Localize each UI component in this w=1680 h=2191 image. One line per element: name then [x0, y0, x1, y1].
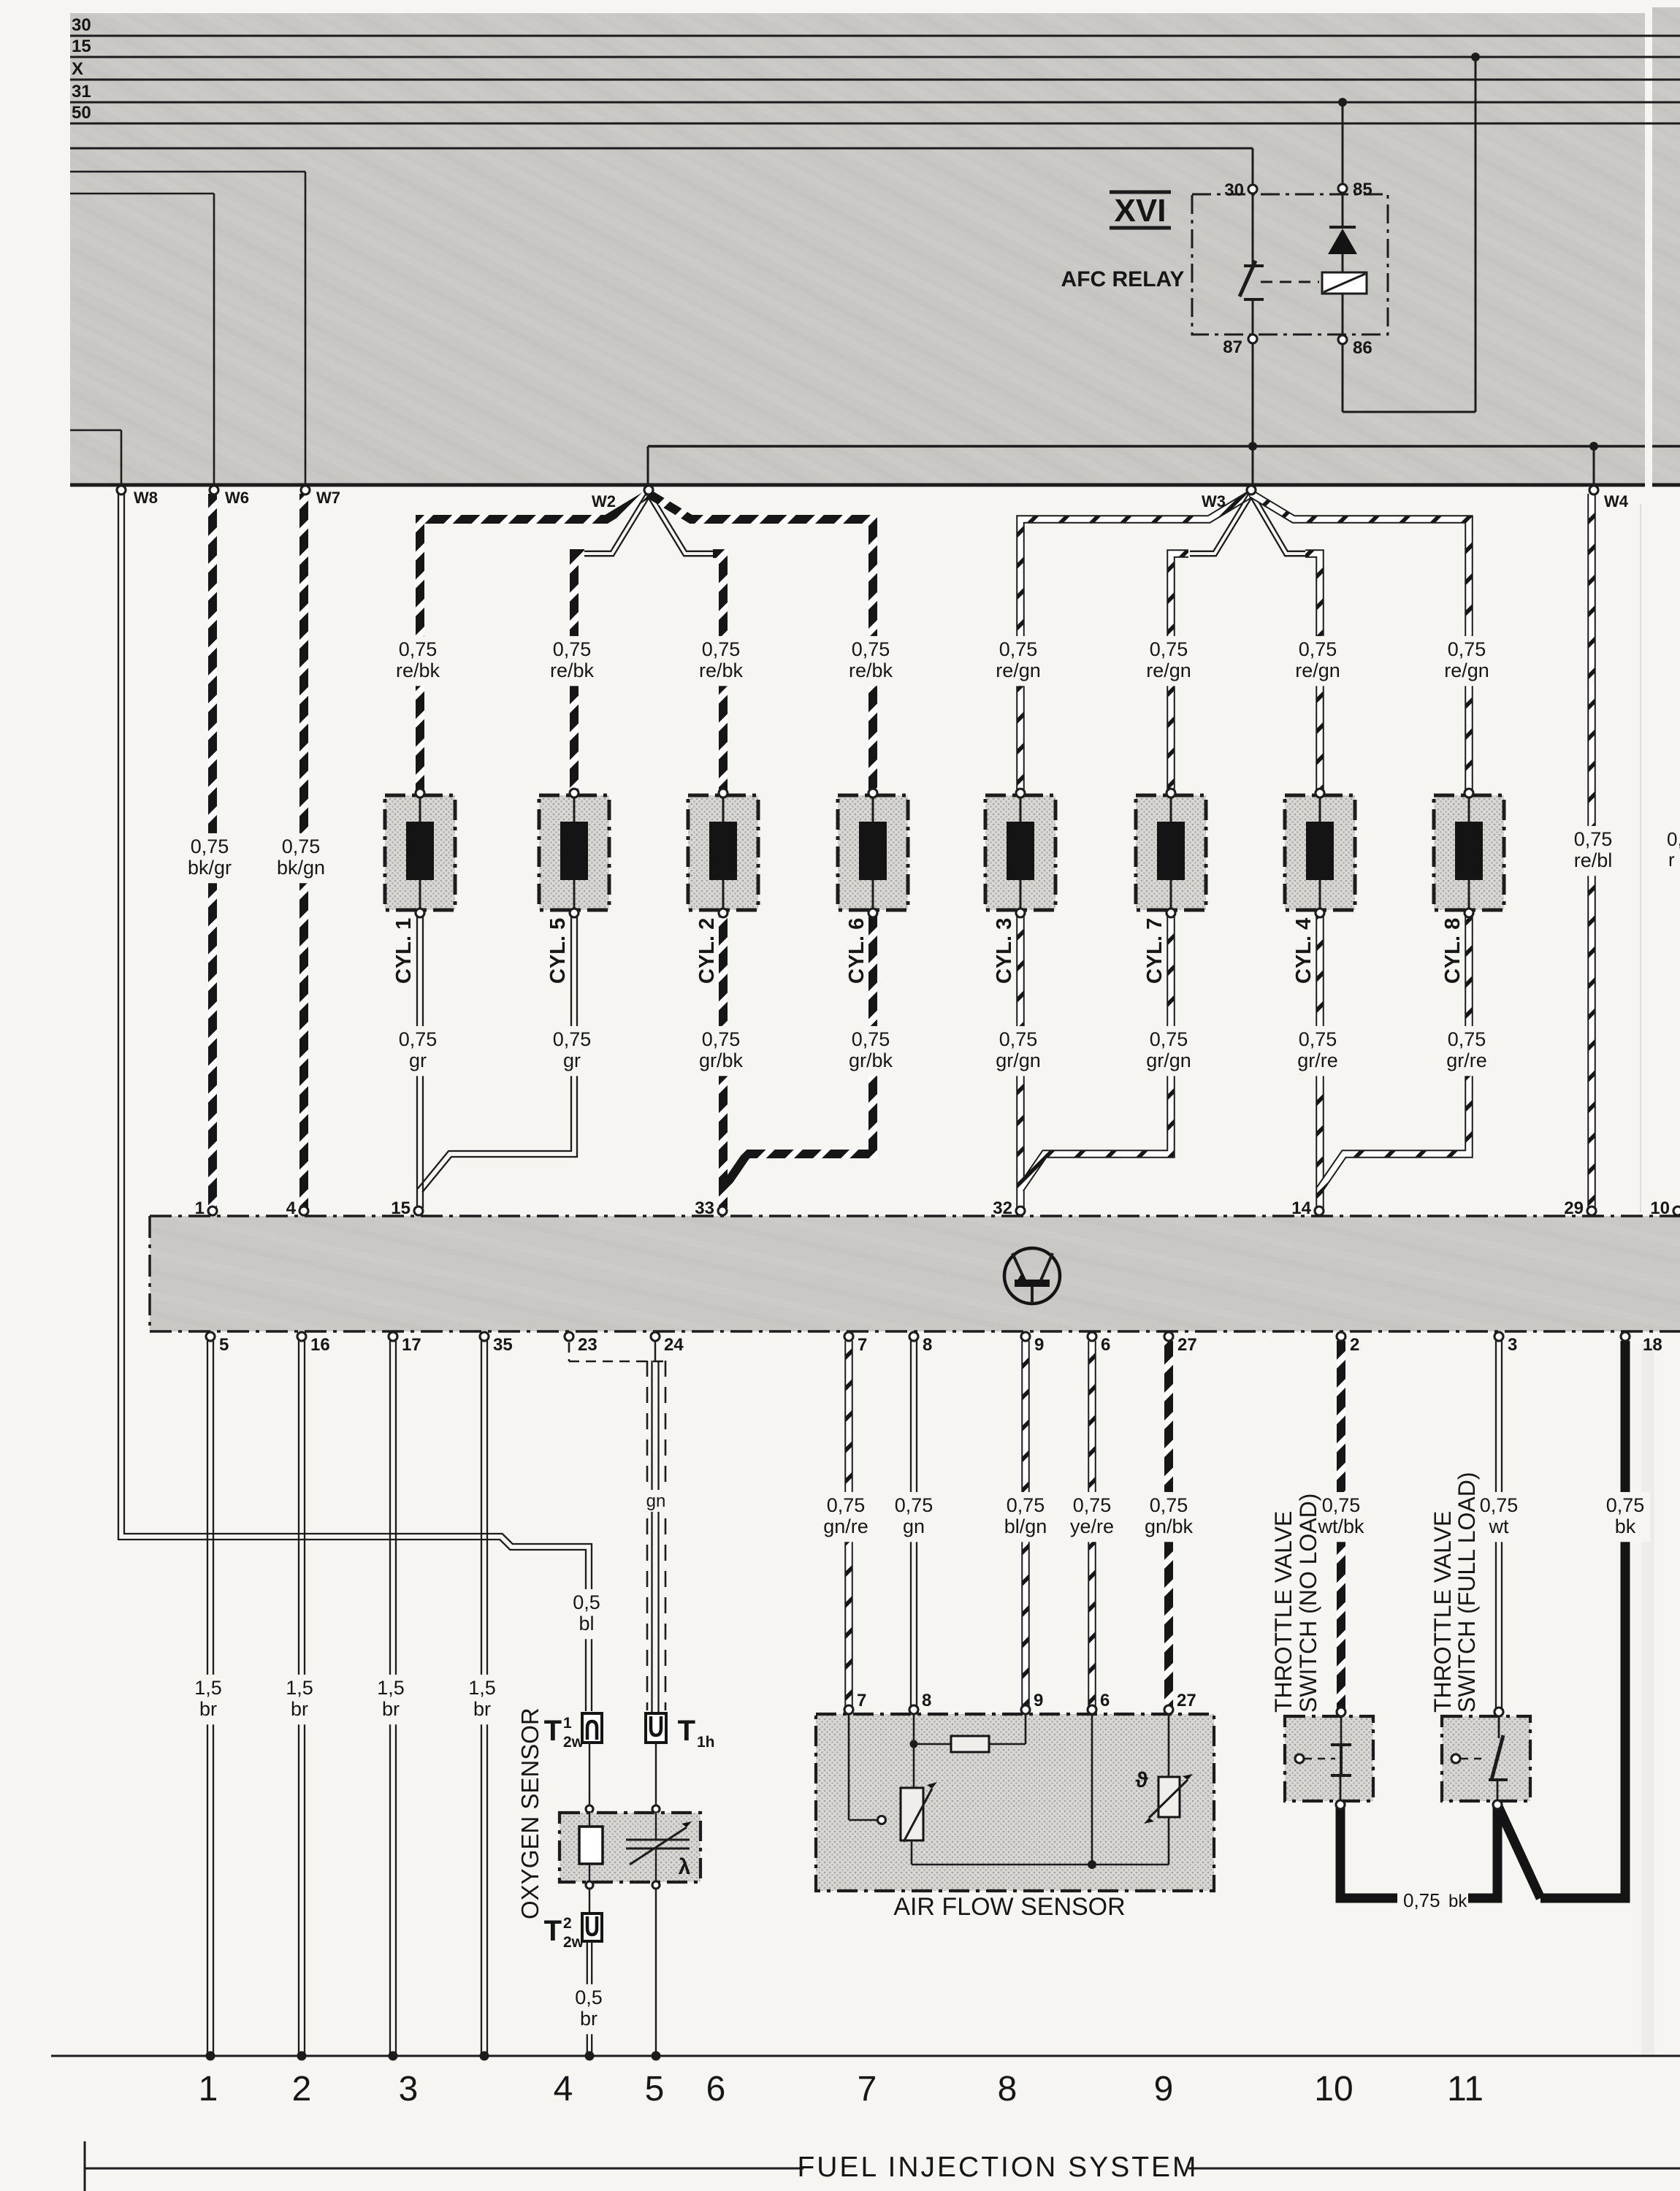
svg-text:λ: λ	[679, 1855, 691, 1879]
svg-text:CYL. 1: CYL. 1	[392, 918, 416, 984]
svg-text:gr: gr	[409, 1049, 427, 1071]
svg-text:1,5: 1,5	[194, 1677, 222, 1699]
svg-text:THROTTLE VALVE: THROTTLE VALVE	[1270, 1511, 1297, 1713]
svg-text:0,75: 0,75	[282, 836, 321, 857]
svg-text:r: r	[1668, 849, 1675, 871]
svg-text:23: 23	[578, 1335, 597, 1355]
svg-text:re/gn: re/gn	[996, 659, 1041, 681]
svg-text:wt/bk: wt/bk	[1317, 1515, 1364, 1537]
svg-text:CYL. 7: CYL. 7	[1143, 918, 1167, 984]
svg-text:0,75: 0,75	[1606, 1494, 1645, 1516]
svg-text:re/gn: re/gn	[1295, 659, 1340, 681]
svg-text:0,75: 0,75	[191, 836, 229, 857]
svg-text:bl: bl	[579, 1613, 594, 1634]
svg-text:7: 7	[857, 1691, 866, 1710]
svg-text:br: br	[580, 2008, 597, 2030]
svg-text:W2: W2	[592, 492, 616, 511]
svg-text:2: 2	[292, 2070, 312, 2108]
svg-text:30: 30	[72, 15, 91, 35]
svg-text:THROTTLE VALVE: THROTTLE VALVE	[1429, 1511, 1456, 1713]
svg-text:0,75: 0,75	[553, 1028, 592, 1050]
svg-text:1: 1	[563, 1715, 572, 1732]
svg-text:86: 86	[1353, 338, 1372, 358]
svg-text:gr/gn: gr/gn	[1146, 1049, 1191, 1071]
svg-text:SWITCH (NO LOAD): SWITCH (NO LOAD)	[1295, 1494, 1321, 1713]
svg-text:6: 6	[1101, 1335, 1110, 1355]
svg-text:bk/gn: bk/gn	[277, 857, 325, 879]
svg-text:10: 10	[1314, 2070, 1353, 2108]
svg-text:2: 2	[563, 1915, 572, 1932]
svg-text:2w: 2w	[563, 1734, 584, 1751]
svg-text:T: T	[678, 1715, 695, 1747]
svg-text:6: 6	[1100, 1691, 1110, 1710]
svg-text:8: 8	[998, 2070, 1017, 2108]
svg-text:gr/re: gr/re	[1297, 1049, 1338, 1071]
svg-text:br: br	[382, 1698, 400, 1720]
svg-text:1,5: 1,5	[468, 1677, 496, 1699]
svg-text:0,75: 0,75	[1150, 638, 1188, 660]
svg-text:8: 8	[922, 1691, 931, 1710]
svg-text:1: 1	[195, 1198, 205, 1218]
svg-text:T: T	[544, 1915, 562, 1947]
svg-text:bk: bk	[1448, 1892, 1467, 1911]
svg-text:gr/bk: gr/bk	[699, 1049, 744, 1071]
svg-text:gn: gn	[646, 1491, 666, 1511]
svg-text:1h: 1h	[697, 1734, 715, 1751]
svg-text:0,75: 0,75	[1150, 1494, 1188, 1516]
svg-text:0,75: 0,75	[1574, 828, 1613, 850]
svg-text:9: 9	[1034, 1691, 1043, 1710]
svg-text:0,75: 0,75	[1403, 1889, 1440, 1911]
svg-text:9: 9	[1154, 2070, 1174, 2108]
svg-text:gr/gn: gr/gn	[996, 1049, 1041, 1071]
svg-text:0,75: 0,75	[895, 1494, 933, 1516]
svg-text:CYL. 6: CYL. 6	[845, 918, 868, 984]
svg-text:W6: W6	[225, 489, 249, 507]
svg-text:1,5: 1,5	[377, 1677, 405, 1699]
svg-text:27: 27	[1177, 1335, 1197, 1355]
svg-text:gn/re: gn/re	[823, 1515, 868, 1537]
svg-text:CYL. 8: CYL. 8	[1441, 918, 1465, 984]
svg-text:gn/bk: gn/bk	[1145, 1515, 1194, 1537]
svg-text:ϑ: ϑ	[1135, 1768, 1148, 1792]
svg-text:re/gn: re/gn	[1146, 659, 1191, 681]
svg-text:re/bk: re/bk	[396, 659, 440, 681]
svg-text:32: 32	[993, 1198, 1012, 1218]
svg-text:9: 9	[1034, 1335, 1044, 1355]
svg-text:15: 15	[72, 37, 91, 56]
svg-text:15: 15	[391, 1198, 411, 1218]
svg-text:3: 3	[1508, 1335, 1517, 1355]
svg-text:bl/gn: bl/gn	[1004, 1515, 1047, 1537]
svg-text:0,75: 0,75	[1299, 1028, 1337, 1050]
svg-text:0,75: 0,75	[827, 1494, 866, 1516]
svg-text:0,75: 0,75	[1007, 1494, 1045, 1516]
svg-text:0,75: 0,75	[702, 638, 741, 660]
svg-text:0,75: 0,75	[1448, 1028, 1486, 1050]
svg-text:wt: wt	[1489, 1515, 1509, 1537]
svg-text:0,75: 0,75	[1322, 1494, 1361, 1516]
svg-text:gr/re: gr/re	[1446, 1049, 1487, 1071]
svg-text:0,75: 0,75	[1448, 638, 1486, 660]
svg-text:18: 18	[1643, 1335, 1662, 1355]
svg-text:0,75: 0,75	[999, 1028, 1038, 1050]
svg-text:16: 16	[310, 1335, 330, 1355]
svg-text:W4: W4	[1604, 492, 1629, 511]
svg-text:SWITCH (FULL LOAD): SWITCH (FULL LOAD)	[1454, 1472, 1480, 1713]
svg-text:50: 50	[72, 103, 91, 123]
svg-text:0,5: 0,5	[575, 1987, 603, 2008]
svg-text:AFC RELAY: AFC RELAY	[1061, 267, 1185, 291]
svg-text:33: 33	[695, 1198, 714, 1218]
svg-text:3: 3	[399, 2070, 419, 2108]
svg-text:0,75: 0,75	[553, 638, 592, 660]
svg-text:0,75: 0,75	[1299, 638, 1337, 660]
svg-text:0,75: 0,75	[1073, 1494, 1112, 1516]
svg-text:CYL. 5: CYL. 5	[546, 918, 570, 984]
svg-text:br: br	[291, 1698, 308, 1720]
svg-text:27: 27	[1177, 1691, 1196, 1710]
svg-text:2w: 2w	[563, 1934, 584, 1951]
svg-text:0,75: 0,75	[999, 638, 1038, 660]
svg-text:W8: W8	[134, 489, 158, 507]
svg-text:0,75: 0,75	[399, 1028, 438, 1050]
svg-text:0,75: 0,75	[1150, 1028, 1188, 1050]
svg-text:ye/re: ye/re	[1070, 1515, 1114, 1537]
svg-text:bk/gr: bk/gr	[188, 857, 232, 879]
svg-text:CYL. 4: CYL. 4	[1292, 918, 1316, 984]
svg-text:0,5: 0,5	[573, 1591, 600, 1613]
svg-text:4: 4	[286, 1198, 297, 1218]
svg-text:CYL. 3: CYL. 3	[993, 918, 1016, 984]
svg-text:br: br	[473, 1698, 491, 1720]
svg-text:14: 14	[1291, 1198, 1311, 1218]
svg-text:4: 4	[554, 2070, 573, 2108]
svg-text:35: 35	[493, 1335, 513, 1355]
svg-text:T: T	[544, 1715, 562, 1747]
svg-text:10: 10	[1650, 1198, 1670, 1218]
svg-text:7: 7	[858, 2070, 877, 2108]
svg-text:2: 2	[1350, 1335, 1359, 1355]
svg-text:0,75: 0,75	[852, 1028, 890, 1050]
svg-text:5: 5	[645, 2070, 665, 2108]
svg-text:1,5: 1,5	[286, 1677, 313, 1699]
svg-text:X: X	[72, 59, 83, 79]
svg-text:re/bk: re/bk	[849, 659, 893, 681]
svg-text:gr: gr	[563, 1049, 581, 1071]
svg-text:24: 24	[664, 1335, 684, 1355]
svg-text:0,75: 0,75	[852, 638, 890, 660]
svg-text:W3: W3	[1202, 492, 1226, 511]
svg-text:1: 1	[199, 2070, 218, 2108]
svg-text:7: 7	[858, 1335, 867, 1355]
svg-text:0,: 0,	[1667, 828, 1680, 850]
svg-text:XVI: XVI	[1115, 193, 1167, 229]
svg-text:17: 17	[402, 1335, 421, 1355]
svg-text:W7: W7	[316, 489, 340, 507]
svg-text:CYL. 2: CYL. 2	[695, 918, 719, 984]
svg-text:FUEL INJECTION SYSTEM: FUEL INJECTION SYSTEM	[797, 2152, 1198, 2183]
svg-text:AIR FLOW SENSOR: AIR FLOW SENSOR	[893, 1893, 1125, 1921]
svg-text:30: 30	[1224, 180, 1244, 200]
svg-text:85: 85	[1353, 180, 1372, 199]
svg-text:11: 11	[1447, 2070, 1484, 2108]
svg-text:OXYGEN SENSOR: OXYGEN SENSOR	[516, 1708, 543, 1919]
svg-text:8: 8	[923, 1335, 932, 1355]
svg-text:31: 31	[72, 82, 91, 102]
svg-text:0,75: 0,75	[1480, 1494, 1519, 1516]
svg-text:0,75: 0,75	[702, 1028, 741, 1050]
svg-text:re/bk: re/bk	[699, 659, 744, 681]
svg-text:5: 5	[219, 1335, 229, 1355]
svg-text:re/gn: re/gn	[1444, 659, 1489, 681]
svg-text:87: 87	[1223, 337, 1242, 357]
svg-text:bk: bk	[1615, 1515, 1636, 1537]
svg-text:re/bk: re/bk	[550, 659, 595, 681]
svg-text:gr/bk: gr/bk	[849, 1049, 893, 1071]
svg-text:gn: gn	[903, 1515, 925, 1537]
svg-text:0,75: 0,75	[399, 638, 438, 660]
svg-text:6: 6	[706, 2070, 726, 2108]
svg-text:re/bl: re/bl	[1574, 849, 1613, 871]
svg-text:29: 29	[1564, 1198, 1584, 1218]
svg-text:br: br	[199, 1698, 217, 1720]
